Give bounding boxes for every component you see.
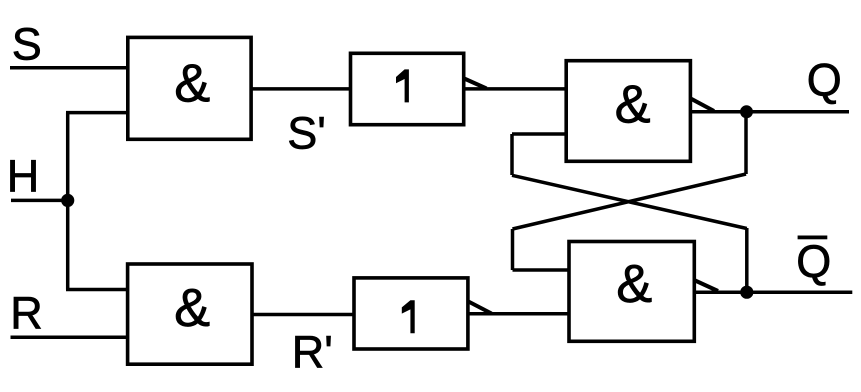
wire V1 output to U3 bbox=[464, 87, 567, 91]
wire H vertical bbox=[66, 113, 70, 290]
wire Qbar output bbox=[694, 290, 852, 294]
wire S input bbox=[10, 66, 128, 70]
junction Q bbox=[740, 105, 753, 118]
wire U1 second input bbox=[66, 111, 128, 115]
inverter V2 box bbox=[354, 278, 468, 349]
wire U3 second input bbox=[512, 132, 566, 136]
and-gate U3 negation wedge bbox=[691, 99, 714, 111]
wire Q output bbox=[690, 110, 849, 114]
svg-text:&: & bbox=[174, 278, 210, 338]
inverter V2 negation wedge bbox=[468, 302, 491, 314]
wire R input bbox=[11, 335, 129, 339]
and-gate U1 box bbox=[128, 37, 251, 139]
and-gate U3 box bbox=[566, 61, 690, 162]
wire U4 first input bbox=[513, 268, 570, 272]
svg-text:S: S bbox=[12, 18, 42, 69]
node Qbar overline bbox=[798, 236, 828, 240]
svg-text:S': S' bbox=[287, 107, 326, 158]
and-gate U4 box bbox=[569, 242, 694, 342]
svg-text:R: R bbox=[10, 287, 43, 338]
inverter V1 symbol "1" bbox=[396, 69, 409, 102]
svg-text:Q: Q bbox=[807, 54, 842, 105]
wire cross diagonal Qbar to U3 bbox=[512, 175, 747, 228]
inverter V1 negation wedge bbox=[464, 79, 486, 89]
wire Qbar feedback vertical bbox=[745, 228, 749, 292]
and-gate U2 box bbox=[128, 264, 252, 364]
inverter V1 box bbox=[351, 53, 464, 124]
wire U2 output to V2 bbox=[252, 313, 354, 317]
svg-text:&: & bbox=[616, 254, 652, 314]
svg-text:H: H bbox=[7, 151, 40, 202]
wire V2 output to U4 bbox=[468, 312, 569, 316]
junction Qbar bbox=[740, 286, 753, 299]
inverter V2 symbol "1" bbox=[402, 300, 415, 333]
wire U1 output to V1 bbox=[251, 87, 351, 91]
svg-text:R': R' bbox=[292, 326, 333, 377]
and-gate U4 negation wedge bbox=[695, 281, 718, 292]
wire H horizontal bbox=[11, 199, 68, 203]
wire feedback vertical upper-left bbox=[510, 134, 514, 175]
wire feedback vertical lower-left bbox=[511, 229, 515, 270]
wire U2 second input bbox=[66, 288, 128, 292]
wire cross diagonal Q to U4 bbox=[513, 174, 747, 229]
svg-text:Q: Q bbox=[796, 236, 831, 287]
svg-text:&: & bbox=[615, 75, 651, 135]
wire Q feedback vertical upper bbox=[744, 112, 748, 174]
svg-text:&: & bbox=[174, 53, 210, 113]
junction H bbox=[61, 194, 74, 207]
